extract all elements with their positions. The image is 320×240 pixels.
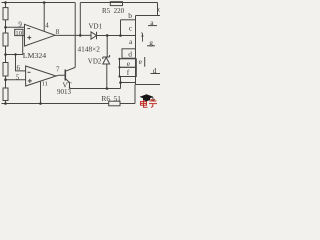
contact box d: [122, 49, 136, 58]
transistor VT1 emitter: [65, 79, 69, 89]
node dot zener tap: [106, 34, 109, 37]
wire right rail drop to box: [157, 3, 159, 16]
resistor R5 220 body: [110, 2, 122, 6]
svg-text:7: 7: [56, 65, 60, 73]
contact box e: [120, 59, 137, 68]
wire left chain bottom: [5, 101, 7, 104]
watermark red character 1: [141, 100, 148, 107]
node dot pin 11 ground: [39, 102, 42, 105]
wire left chain R-A to R-B: [5, 20, 7, 33]
wire pin 11 to ground rail: [40, 81, 42, 103]
svg-text:4148×2: 4148×2: [78, 44, 101, 53]
wire ground rail right of R6: [120, 103, 135, 105]
node dot contact c tap: [119, 34, 122, 37]
node dot tap to pin 6: [14, 53, 16, 55]
wire left chain R-C to R-D: [5, 76, 7, 88]
svg-text:g: g: [149, 38, 153, 47]
resistor chain left R-A body: [3, 8, 8, 20]
node dot zener emitter junction: [106, 87, 109, 90]
node dot f-box bottom corner: [118, 75, 120, 77]
wire left chain R-B to R-C: [5, 46, 7, 62]
underline of a: [148, 25, 157, 27]
svg-text:8: 8: [56, 28, 60, 36]
device big box left edge: [135, 16, 137, 85]
svg-text:R6 51: R6 51: [102, 94, 122, 103]
op-amp U1A plus sign: [27, 37, 31, 39]
wire divider tap to pin 5: [6, 79, 26, 81]
node dot R-C/R-D junction: [4, 78, 7, 81]
watermark red character 2: [149, 99, 157, 107]
resistor chain left R-C body: [3, 63, 8, 77]
zener diode VD2: [103, 57, 110, 64]
node dot f-row junction: [119, 81, 122, 84]
resistor chain left R-D body: [3, 88, 8, 101]
op-amp U1B plus sign: [28, 80, 32, 82]
svg-text:b: b: [128, 11, 132, 20]
svg-text:VD1: VD1: [89, 23, 103, 31]
resistor chain left R-B body: [3, 33, 8, 46]
svg-text:4: 4: [45, 21, 49, 29]
wire top rail left segment: [2, 2, 76, 4]
svg-text:d: d: [128, 50, 132, 59]
wire output to rail riser: [79, 3, 81, 36]
wire V+ vertical to collector: [74, 3, 76, 68]
wire emitter wire up to contact row: [120, 77, 122, 89]
node dot pin 4 top rail: [43, 1, 46, 4]
op-amp U1B triangle: [26, 66, 56, 86]
svg-text:VD2: VD2: [88, 58, 102, 66]
wire pin 4 power: [43, 3, 45, 32]
node dot R-B/R-C junction: [4, 53, 7, 56]
box around pin 10 label: [15, 29, 23, 35]
wire zener to emitter wire: [106, 64, 108, 89]
wire tap to pin 6: [16, 55, 26, 71]
resistor R6 body: [109, 101, 120, 106]
wire contact b: [121, 19, 136, 21]
svg-text:6: 6: [17, 64, 21, 72]
svg-text:R5 220: R5 220: [102, 7, 125, 15]
wire junction to device box f row: [121, 82, 136, 84]
wire emitter to right: [70, 88, 121, 90]
op-amp U1A minus sign: [27, 28, 30, 30]
wire left chain: [5, 3, 7, 8]
svg-text:d: d: [153, 66, 157, 75]
diode VD1: [91, 32, 97, 39]
wire op-amp U1B output pin 7 to base: [56, 74, 65, 77]
wire VD1 cathode to relay box: [97, 35, 136, 37]
op-amp U1B minus sign: [28, 71, 31, 73]
wire ground rail: [2, 103, 109, 105]
label terminal f tall in box (drawn strokes): [141, 33, 144, 42]
node dot R-A/R-B junction: [4, 26, 7, 29]
node dot e-f box corner: [118, 66, 120, 68]
svg-text:5: 5: [16, 73, 20, 81]
node dot output to rail riser: [79, 34, 82, 37]
op-amp U1A triangle: [25, 24, 56, 46]
svg-text:11: 11: [42, 80, 48, 87]
wire box stem to ground rail: [134, 85, 136, 104]
watermark graduation cap: [140, 94, 154, 101]
svg-text:9: 9: [18, 20, 22, 28]
wire zener branch vertical: [106, 35, 108, 57]
device big box bottom edge: [136, 84, 161, 86]
transistor VT1 collector: [65, 67, 75, 71]
svg-text:d: d: [158, 6, 160, 14]
bar after letter e in box: [144, 57, 146, 67]
node dot top-left rail: [4, 1, 7, 4]
svg-text:9013: 9013: [57, 88, 72, 96]
node dot e-box top corner: [118, 58, 120, 60]
wire op-amp U1A output pin 8: [55, 34, 91, 36]
wire contact c vertical: [120, 20, 122, 36]
wire pin 9 input: [6, 26, 25, 28]
node dot chain bottom: [4, 102, 7, 105]
svg-text:10: 10: [15, 30, 22, 37]
svg-text:LM324: LM324: [23, 51, 46, 60]
wire divider tap to pin 10: [6, 36, 25, 55]
contact box f: [120, 67, 137, 76]
underline of d: [151, 73, 161, 75]
device big box top edge: [136, 15, 161, 17]
wire top rail right segment: [80, 2, 157, 4]
underline of g: [147, 45, 155, 47]
transistor VT1 base bar: [64, 70, 66, 81]
